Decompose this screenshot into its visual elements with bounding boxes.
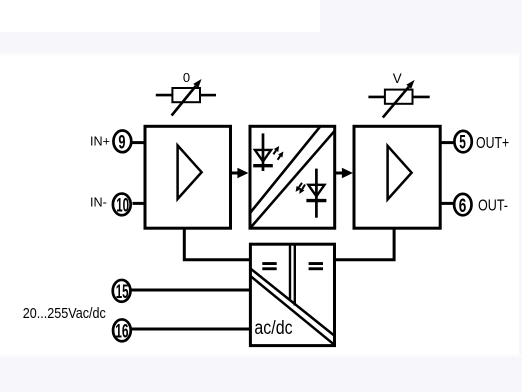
power supply diagonal lower xyxy=(250,276,334,345)
amplifier U1 triangle xyxy=(178,145,202,199)
svg-text:ac/dc: ac/dc xyxy=(254,317,292,339)
wire U2 to U3 with arrow xyxy=(335,168,353,179)
trimmer P1 body xyxy=(172,88,200,102)
wire U1 bottom to U4 xyxy=(184,229,251,260)
LED D1 light arrows xyxy=(273,146,283,160)
svg-text:IN-: IN- xyxy=(90,196,107,210)
LED D2 light arrows xyxy=(296,183,305,194)
trimmer P1 arrow xyxy=(172,79,202,116)
wire pin10 to U1 xyxy=(133,202,147,205)
wire pin9 to U1 xyxy=(131,141,147,144)
terminal 16 xyxy=(113,319,131,342)
bottom lavender band xyxy=(0,354,522,357)
svg-text:20...255Vac/dc: 20...255Vac/dc xyxy=(23,306,107,322)
wire U1 to U2 with arrow xyxy=(231,168,249,179)
power supply DC symbol left xyxy=(262,262,276,270)
svg-text:15: 15 xyxy=(116,281,129,303)
trimmer P2 left lead xyxy=(368,96,385,99)
top lavender band xyxy=(0,32,522,53)
power supply U4 box xyxy=(250,244,334,345)
power supply divider lines xyxy=(289,246,291,301)
optocoupler isolation line upper xyxy=(250,126,321,214)
trimmer P2 body xyxy=(385,90,413,104)
terminal 6 xyxy=(454,194,471,217)
svg-text:16: 16 xyxy=(115,321,128,343)
LED D1 xyxy=(253,133,273,171)
amplifier U3 triangle xyxy=(388,146,412,200)
right edge lavender column xyxy=(519,0,522,392)
svg-text:6: 6 xyxy=(459,195,467,217)
svg-text:OUT+: OUT+ xyxy=(476,135,509,152)
wire U3 to pin5 xyxy=(439,141,455,144)
wire pin15 to U4 xyxy=(132,289,252,292)
amplifier U3 box xyxy=(354,126,440,228)
terminal 15 xyxy=(113,280,131,303)
svg-text:OUT-: OUT- xyxy=(478,198,508,215)
wire pin16 to U4 xyxy=(131,328,252,331)
svg-text:IN+: IN+ xyxy=(90,135,110,149)
wire U3 bottom to U4 xyxy=(334,229,394,260)
trimmer P2 arrow xyxy=(383,80,415,118)
power supply DC symbol right xyxy=(309,262,323,270)
svg-text:5: 5 xyxy=(459,132,466,154)
LED D2 xyxy=(306,169,326,218)
amplifier U1 box xyxy=(145,126,231,228)
terminal 9 xyxy=(113,131,131,154)
terminal 10 xyxy=(113,194,131,217)
optocoupler isolation line lower xyxy=(251,130,336,227)
optocoupler U2 box xyxy=(250,126,335,228)
svg-text:0: 0 xyxy=(183,70,190,85)
wire U3 to pin6 xyxy=(439,202,455,205)
trimmer P1 left lead xyxy=(156,94,173,97)
trimmer P1 right lead xyxy=(200,94,216,97)
svg-text:V: V xyxy=(393,71,402,86)
terminal 5 xyxy=(454,131,471,154)
top-right lavender panel xyxy=(320,0,522,32)
trimmer P2 right lead xyxy=(413,96,430,99)
svg-text:10: 10 xyxy=(116,195,129,217)
power supply diagonal upper xyxy=(250,269,334,336)
svg-text:9: 9 xyxy=(118,132,125,154)
